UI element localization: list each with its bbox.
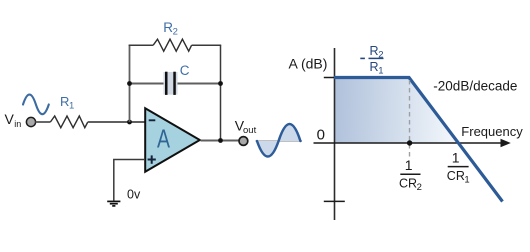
svg-text:out: out	[243, 125, 257, 136]
graph gain tick	[324, 77, 334, 79]
label R2	[163, 20, 178, 38]
node Vout label	[235, 118, 257, 137]
label R1	[60, 94, 74, 112]
svg-text:A: A	[157, 124, 170, 154]
graph y-axis	[334, 48, 336, 220]
dashed corner frequency line	[409, 80, 411, 157]
op-amp U1	[145, 108, 200, 172]
graph gain area fill	[334, 79, 458, 143]
resistor R1	[50, 116, 87, 128]
node Vin label	[5, 111, 22, 129]
svg-text:0v: 0v	[127, 188, 141, 202]
svg-text:V: V	[5, 111, 15, 127]
svg-text:2: 2	[173, 26, 178, 37]
resistor R2	[153, 39, 191, 51]
junction node cap left	[127, 81, 132, 86]
label minus R2/R1 fraction	[360, 44, 383, 77]
svg-text:1: 1	[69, 101, 74, 112]
wire top left to R2	[129, 44, 154, 46]
svg-text:1: 1	[405, 157, 413, 173]
graph bottom tick	[324, 200, 345, 202]
junction node cap right	[218, 81, 223, 86]
svg-text:R: R	[370, 44, 379, 58]
svg-text:-20dB/decade: -20dB/decade	[433, 78, 517, 93]
svg-text:1: 1	[452, 150, 460, 166]
wire non-inverting input	[114, 160, 145, 201]
svg-text:C: C	[180, 63, 190, 78]
svg-text:Frequency: Frequency	[461, 124, 523, 139]
ground	[107, 201, 120, 206]
capacitor C	[164, 72, 178, 95]
label corner frequency 1/CR2	[399, 157, 422, 193]
wire input node to R1	[36, 121, 51, 123]
svg-text:CR: CR	[447, 169, 465, 183]
svg-text:2: 2	[417, 182, 422, 193]
svg-text:1: 1	[464, 174, 469, 185]
wire op-amp output	[201, 140, 239, 142]
svg-text:CR: CR	[399, 176, 417, 190]
svg-text:1: 1	[378, 65, 383, 76]
graph x-axis	[314, 142, 504, 144]
svg-text:in: in	[14, 119, 21, 129]
junction node output feedback	[218, 138, 223, 143]
corner frequency dot	[407, 140, 412, 145]
junction node inverting input	[127, 120, 132, 125]
wire capacitor branch right	[178, 83, 221, 85]
input terminal node	[26, 117, 35, 126]
wire R2 to top right corner	[192, 44, 222, 46]
input sine wave icon	[23, 95, 49, 115]
wire R1 to op-amp inverting input	[88, 121, 145, 123]
label corner frequency 1/CR1	[447, 150, 470, 186]
output terminal node	[239, 137, 248, 146]
svg-text:A (dB): A (dB)	[289, 56, 328, 72]
svg-text:R: R	[370, 60, 379, 74]
svg-text:0: 0	[317, 127, 325, 144]
svg-text:R: R	[60, 94, 69, 109]
op-amp minus sign	[149, 119, 156, 121]
wire feedback right vertical	[220, 45, 222, 140]
graph x-axis arrowhead	[501, 139, 511, 148]
op-amp plus sign	[148, 155, 156, 163]
graph response curve	[334, 78, 503, 202]
output sine wave icon	[257, 124, 300, 157]
wire feedback left vertical	[129, 45, 131, 122]
wire capacitor branch left	[130, 83, 165, 85]
output sine baseline	[256, 140, 303, 142]
